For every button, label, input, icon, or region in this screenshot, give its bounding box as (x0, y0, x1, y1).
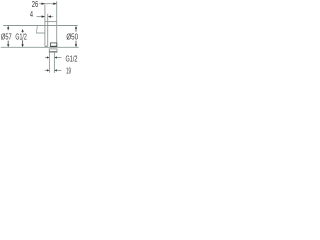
wire: part bottom cap (45, 45, 48, 47)
dimension 26 left arrowhead (42, 3, 45, 5)
dimension 4 right arrowhead (48, 15, 51, 17)
dimension D57 lower stem (7, 41, 9, 45)
dimension G1/2 left upper arrowhead (21, 29, 23, 32)
concealed union body box below wall (49, 49, 57, 52)
svg-text:4: 4 (30, 10, 33, 19)
dimension G1/2 left lower arrowhead (21, 44, 23, 47)
dimension D50 upper stem (75, 29, 77, 32)
wire: part vertical edge P2 (47, 14, 49, 47)
dimension 4 left line (37, 16, 45, 18)
concealed pipe right edge E2 (53, 52, 55, 73)
dimension G1/2 bottom left tail (45, 57, 47, 59)
background (0, 0, 80, 80)
dimension 19 left tail (45, 69, 48, 71)
svg-text:G1/2: G1/2 (66, 53, 78, 63)
dimension 19 right tail (57, 69, 62, 71)
union flange box at wall (50, 43, 56, 47)
dimension 4 left arrowhead (42, 15, 45, 17)
dimension 19 left arrowhead (47, 69, 50, 71)
dimension G1/2 left lower stem (22, 40, 24, 44)
dimension G1/2 left upper stem (22, 32, 24, 33)
cone edge from body to line B (36, 26, 37, 33)
svg-text:Ø50: Ø50 (66, 31, 78, 41)
dimension 4 right tail line (51, 16, 53, 18)
svg-text:19: 19 (66, 65, 71, 75)
dimension G1/2 bottom right tail (57, 57, 62, 59)
dimension D50 upper arrowhead (75, 26, 77, 29)
dimension 26 line (39, 3, 56, 5)
wire: horizontal line B left of part (36, 32, 45, 34)
wire: vertical wall face line V (56, 1, 58, 47)
svg-text:Ø57: Ø57 (1, 31, 12, 41)
wire: wall surface line W (1, 46, 79, 48)
wire: long horizontal body top line A (3, 25, 78, 27)
dimension 19 right arrowhead (54, 69, 57, 71)
dimension D50 lower arrowhead (75, 44, 77, 47)
svg-text:26: 26 (32, 0, 39, 9)
dimension 26 right arrowhead (53, 3, 56, 5)
dimension D50 lower stem (75, 41, 77, 45)
union flange box bottom edge (50, 45, 57, 47)
dimension D57 lower arrowhead (7, 44, 9, 47)
concealed union body box bottom edge (49, 51, 57, 53)
concealed pipe left edge E1 (48, 52, 50, 73)
svg-text:G1/2: G1/2 (15, 31, 27, 41)
dimension D57 upper arrowhead (7, 26, 9, 29)
wire: horizontal line C from part to wall (45, 21, 57, 23)
wire: part vertical edge P1 / extension line (44, 5, 46, 47)
dimension G1/2 bottom right arrowhead (54, 56, 57, 58)
dimension D57 upper stem (7, 28, 9, 30)
dimension G1/2 bottom left arrowhead (47, 56, 50, 58)
